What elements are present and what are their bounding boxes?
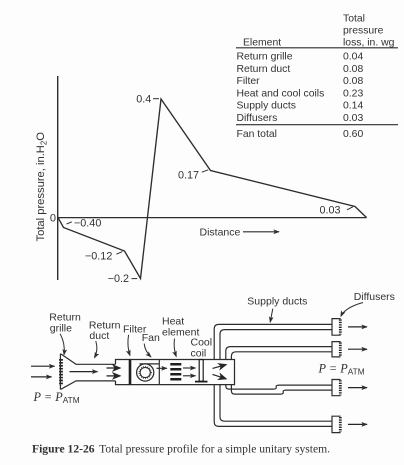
tick for 0.17	[202, 170, 208, 172]
svg-text:0.4: 0.4	[136, 94, 151, 106]
svg-text:Diffusers: Diffusers	[237, 113, 278, 124]
inlet arrow lower	[31, 376, 52, 378]
diffuser 2 face	[339, 342, 342, 356]
leader Diffusers	[341, 303, 363, 317]
diffuser 1 outlet arrow	[348, 326, 367, 328]
supply duct 2 inner wall	[231, 352, 332, 360]
supply duct 3 upper wall	[226, 385, 332, 390]
svg-text:0.08: 0.08	[343, 76, 363, 87]
supply duct 4 inner wall	[220, 385, 332, 422]
filter bar	[129, 360, 132, 385]
heat element rods	[170, 363, 181, 381]
tick for 0.4	[153, 98, 159, 100]
return grille louvres (hatched strip)	[59, 359, 63, 386]
grille-to-duct transition bottom	[61, 381, 76, 389]
cool coil body	[199, 360, 203, 382]
supply duct 1 outer wall	[214, 324, 332, 359]
table header rule	[236, 47, 398, 49]
svg-text:Fan: Fan	[142, 332, 160, 344]
svg-text:0.04: 0.04	[343, 52, 363, 63]
leader Fan	[144, 344, 151, 357]
diffuser 1 frame	[332, 319, 341, 336]
svg-text:P = PATM: P = PATM	[318, 361, 365, 376]
svg-text:Filter: Filter	[237, 76, 261, 87]
diffuser 3 face	[339, 380, 342, 395]
fan inner circle	[140, 367, 150, 377]
svg-text:−0.12: −0.12	[85, 251, 112, 263]
svg-text:loss, in. wg: loss, in. wg	[343, 37, 395, 48]
leader Supply ducts	[270, 309, 273, 323]
svg-text:Distance: Distance	[200, 226, 241, 238]
svg-text:Total: Total	[343, 13, 365, 24]
svg-text:−0.2: −0.2	[108, 273, 129, 285]
grille-to-duct transition top	[61, 354, 76, 364]
table body rows	[237, 52, 364, 140]
return duct bottom wall	[76, 380, 116, 382]
diffuser 4 outlet arrow	[348, 423, 367, 425]
fan outer circle	[137, 364, 154, 381]
svg-text:Element: Element	[243, 37, 281, 48]
svg-text:Return grille: Return grille	[237, 52, 293, 63]
svg-text:duct: duct	[89, 330, 109, 342]
coil outlet arrow upper	[213, 365, 226, 369]
svg-text:Total pressure, in.H2O: Total pressure, in.H2O	[35, 132, 48, 242]
tick for -0.40	[67, 222, 72, 224]
svg-text:Supply ducts: Supply ducts	[247, 295, 307, 307]
diffuser 2 outlet arrow	[348, 348, 367, 350]
leader Return grille	[60, 334, 64, 355]
fan impeller tick ring	[139, 366, 151, 378]
return grille frame	[59, 354, 61, 390]
svg-text:0.23: 0.23	[343, 88, 363, 99]
svg-text:0.17: 0.17	[178, 169, 199, 181]
supply duct 4 outer wall	[214, 385, 332, 427]
svg-text:P = PATM: P = PATM	[33, 390, 80, 405]
tick for -0.12	[116, 252, 122, 255]
diffuser 3 outlet arrow	[348, 387, 367, 389]
heater outlet arrow lower	[183, 375, 196, 377]
heater outlet arrow upper	[183, 367, 196, 369]
inlet arrow upper	[31, 365, 55, 367]
svg-text:0.03: 0.03	[343, 113, 363, 124]
x-axis title arrow	[243, 231, 279, 233]
svg-text:Return duct: Return duct	[237, 64, 291, 75]
supply duct 1 inner wall	[220, 330, 332, 360]
plenum inlet arrow lower	[107, 375, 120, 377]
diffuser 4 face	[339, 417, 342, 432]
supply duct 2 outer wall	[226, 347, 332, 360]
leader Filter	[128, 335, 130, 356]
fan scroll top line	[140, 363, 160, 365]
diffuser 2 frame	[332, 342, 341, 357]
svg-text:grille: grille	[50, 322, 72, 334]
diffuser 1 face	[339, 319, 342, 334]
fan outlet arrow	[157, 367, 167, 369]
cool coil base	[195, 381, 208, 383]
return duct airflow arrow	[70, 371, 98, 373]
svg-text:−0.40: −0.40	[74, 218, 101, 230]
diffuser 4 frame	[332, 416, 341, 432]
svg-text:0: 0	[50, 213, 56, 225]
svg-text:0.60: 0.60	[343, 129, 363, 140]
svg-text:0.08: 0.08	[343, 64, 363, 75]
pressure profile polyline	[58, 99, 367, 279]
coil outlet arrow lower	[213, 374, 226, 378]
tick for -0.2	[132, 278, 138, 280]
return duct top wall	[76, 363, 116, 365]
svg-text:Diffusers: Diffusers	[354, 291, 395, 303]
air-handler box outline	[116, 360, 235, 385]
table footer rule	[236, 124, 398, 126]
svg-text:0.03: 0.03	[320, 205, 341, 217]
x-axis	[57, 217, 367, 219]
svg-text:Heat and cool coils: Heat and cool coils	[237, 88, 325, 99]
diffuser 3 frame	[332, 380, 341, 396]
svg-text:coil: coil	[191, 347, 207, 359]
leader Heat element	[174, 339, 176, 357]
plenum inlet arrow upper	[107, 367, 120, 369]
svg-text:Figure 12-26Total pressure pro: Figure 12-26Total pressure profile for a…	[32, 443, 330, 456]
svg-text:0.14: 0.14	[343, 101, 363, 112]
y-axis	[57, 76, 59, 280]
svg-text:Supply ducts: Supply ducts	[237, 101, 297, 112]
leader Return duct	[95, 341, 97, 358]
supply duct 3 lower wall	[231, 385, 332, 395]
svg-text:Fan total: Fan total	[237, 129, 277, 140]
tick for 0.03	[347, 207, 353, 210]
svg-text:pressure: pressure	[343, 25, 384, 36]
table header text	[243, 13, 395, 48]
fan scroll partition	[158, 360, 160, 385]
